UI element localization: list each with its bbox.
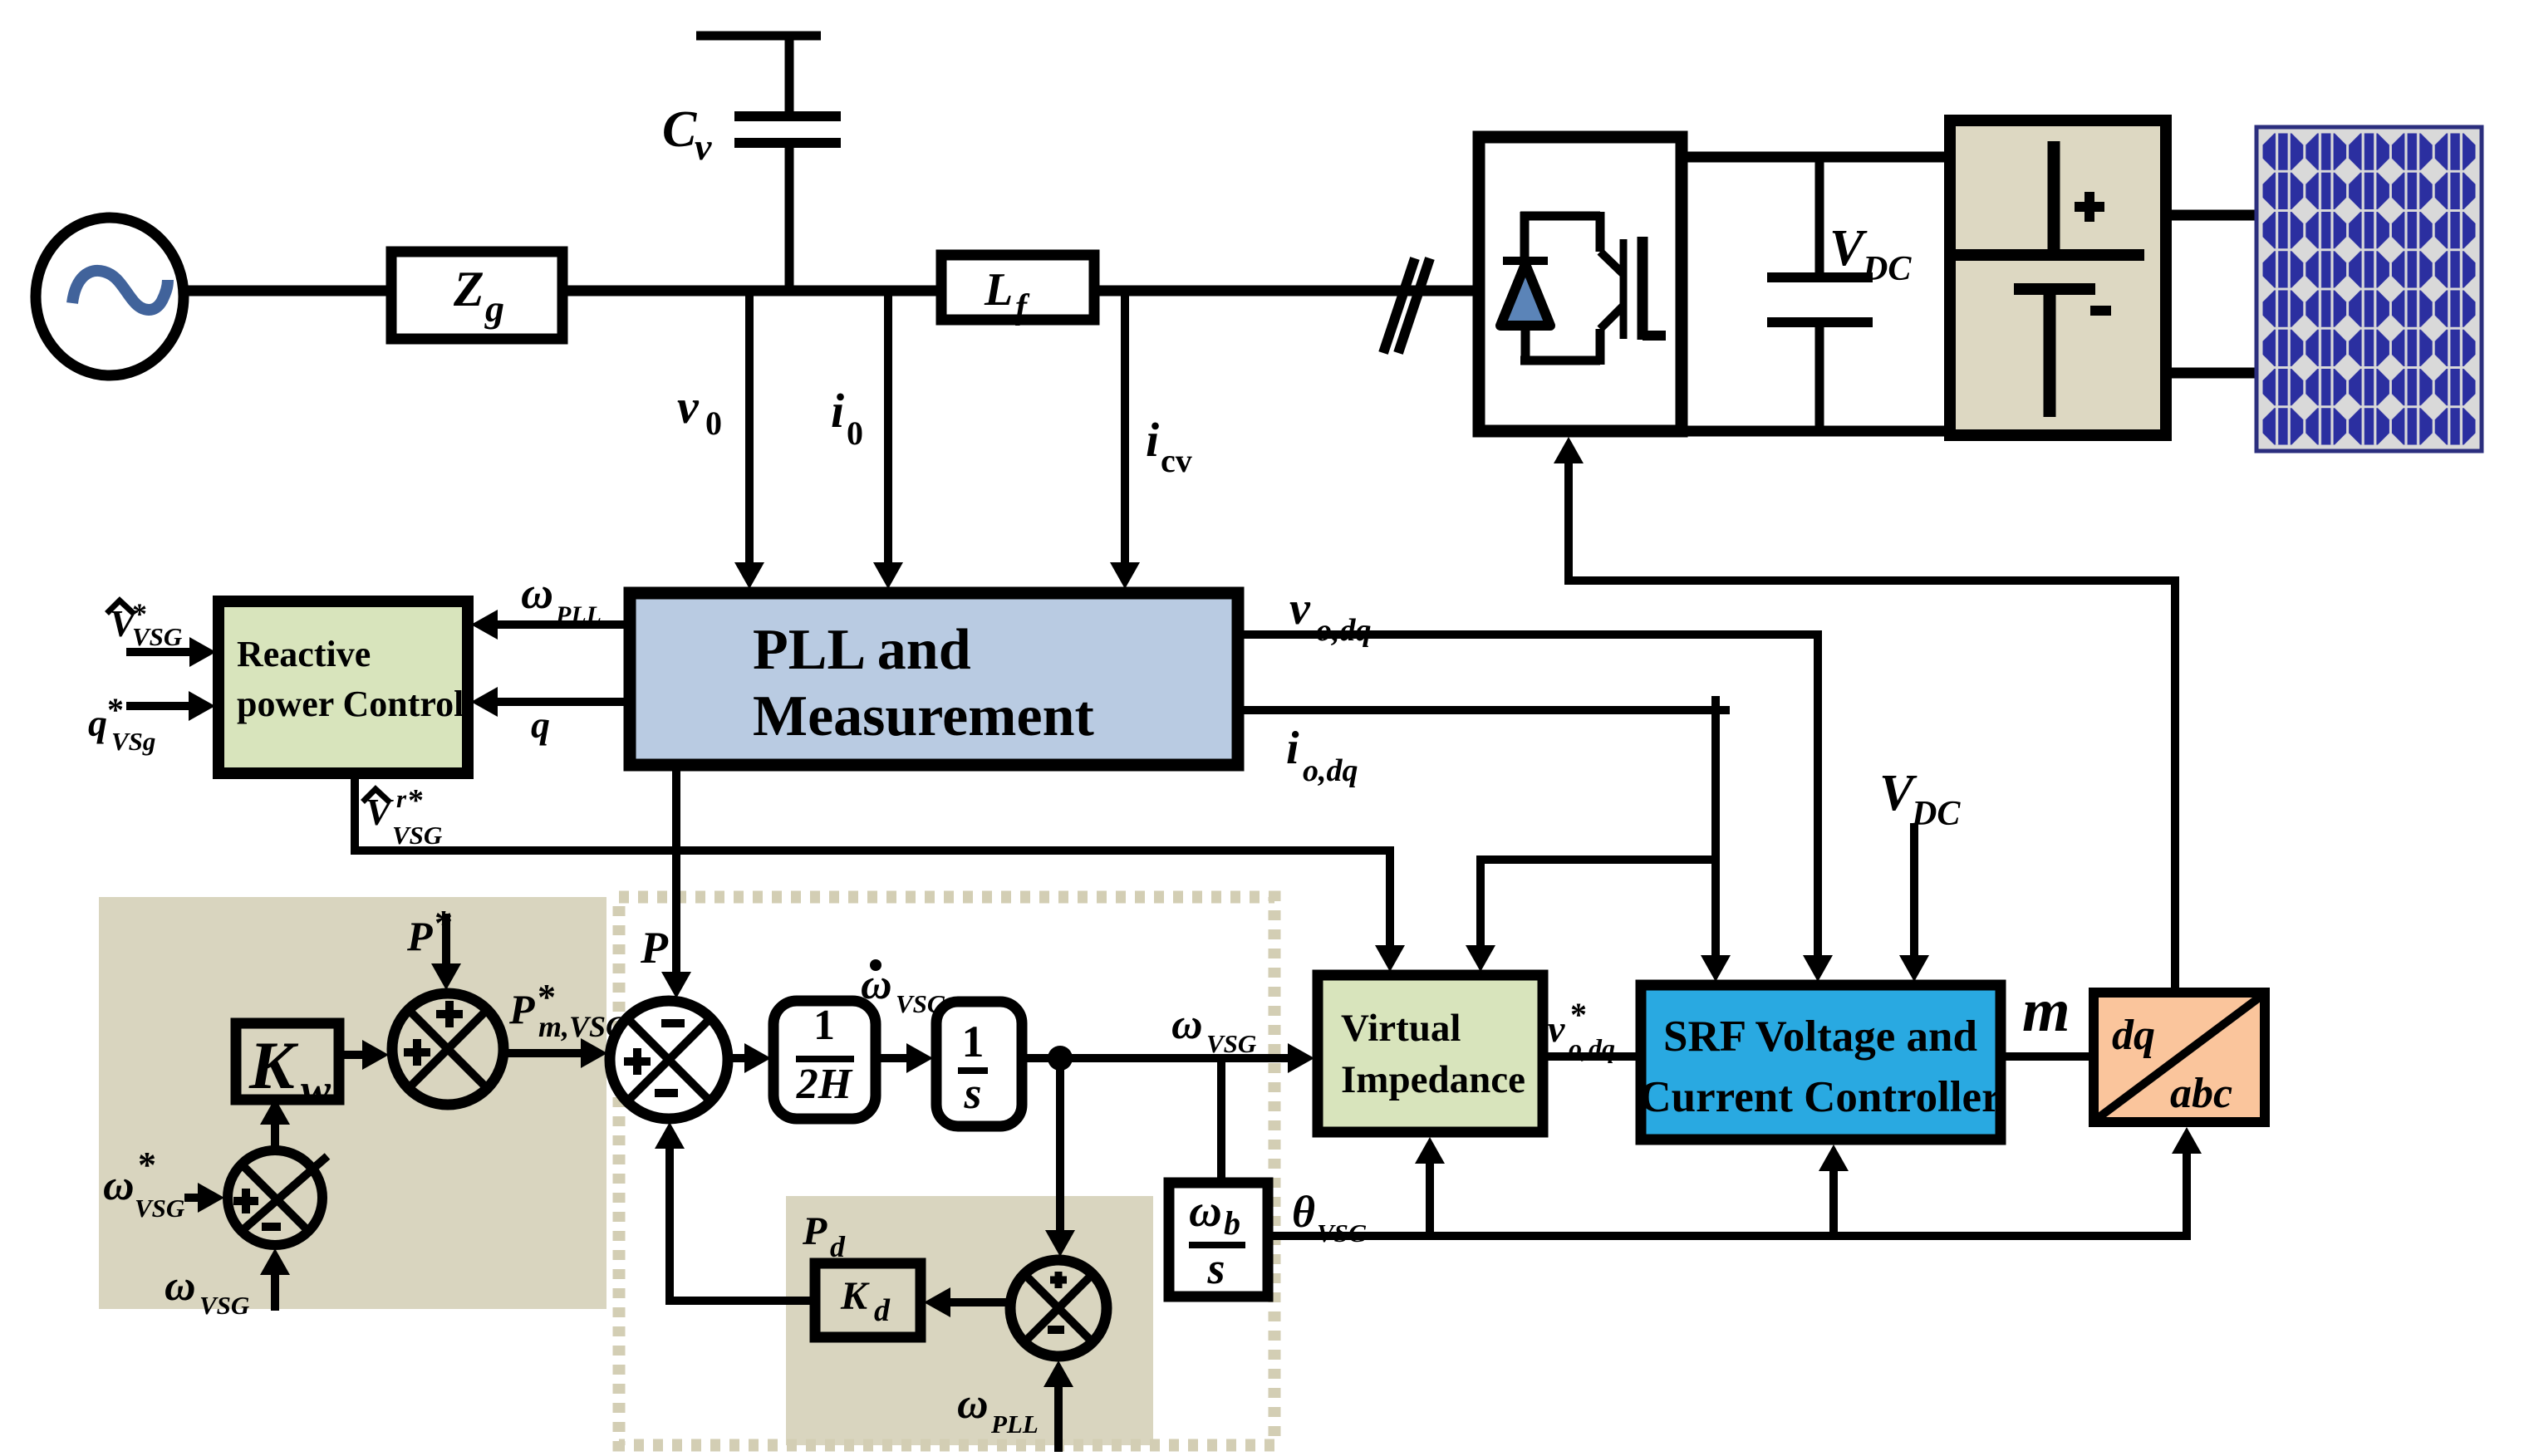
svg-text:v: v <box>1289 583 1311 635</box>
wire P measurement <box>672 765 680 973</box>
label i0 <box>831 384 863 452</box>
svg-text:C: C <box>662 101 697 158</box>
svg-text:θ: θ <box>1292 1187 1315 1237</box>
svg-text:dq: dq <box>2112 1012 2155 1059</box>
svg-text:ω: ω <box>165 1262 196 1310</box>
svg-text:cv: cv <box>1161 442 1192 479</box>
IGBT switch Q1 <box>1600 237 1666 340</box>
svg-text:ω: ω <box>1189 1185 1222 1236</box>
label v*odq <box>1548 996 1615 1063</box>
svg-text:w: w <box>301 1065 331 1115</box>
minus sign bottom <box>1048 1326 1064 1334</box>
grid impedance Zg <box>391 252 562 339</box>
svg-text:P: P <box>406 913 433 959</box>
wire swing to 1/2H <box>728 1054 745 1062</box>
inverter internal loop wire <box>1520 212 1600 365</box>
wire source to Zg <box>182 286 391 297</box>
block 1/2H <box>773 1001 876 1119</box>
plus sign top <box>1050 1272 1067 1288</box>
label iodq <box>1286 723 1358 788</box>
svg-text:abc: abc <box>2170 1070 2232 1117</box>
khaki damping region <box>786 1196 1153 1445</box>
svg-text:0: 0 <box>847 414 863 452</box>
inverter U1 <box>1479 137 1682 431</box>
block Virtual Impedance <box>1318 975 1543 1132</box>
svg-text:i: i <box>1146 413 1159 467</box>
PV panel <box>2256 127 2482 451</box>
label VDC sense <box>1879 765 1961 833</box>
svg-text:d: d <box>874 1293 891 1328</box>
wire Kw to S1 <box>339 1051 363 1059</box>
svg-text:P: P <box>640 923 669 973</box>
wire omegaPLL into S3 <box>1054 1386 1063 1452</box>
wire Pm*VSG to swing summer <box>503 1049 582 1057</box>
plus sign top <box>436 1001 463 1027</box>
svg-text:r: r <box>396 784 407 813</box>
wire thetaVSG <box>1268 1153 2187 1236</box>
svg-text:0: 0 <box>705 404 722 442</box>
wire inverter to battery top <box>1682 152 1954 163</box>
svg-text:VSG: VSG <box>132 622 183 651</box>
svg-text:v: v <box>695 125 712 168</box>
dashed VSG swing region <box>619 897 1274 1445</box>
svg-text:Virtual: Virtual <box>1341 1007 1461 1050</box>
plus sign left <box>404 1039 430 1066</box>
wire V*VSG input <box>126 648 190 656</box>
svg-text:VSG: VSG <box>392 821 443 850</box>
summer swing <box>610 1001 728 1119</box>
wire S3 to Kd <box>950 1298 1009 1306</box>
wire 1/s to virtual impedance <box>1022 1054 1289 1062</box>
block PLL and Measurement <box>630 593 1238 765</box>
wire omegaVSG into S2 <box>271 1274 279 1311</box>
block Kd <box>815 1263 921 1337</box>
inductor Lf <box>941 255 1094 326</box>
block Reactive power Control <box>219 601 468 773</box>
block omega_b/s <box>1169 1183 1268 1297</box>
svg-text:SRF Voltage and: SRF Voltage and <box>1663 1012 1977 1061</box>
block 1/s <box>936 1002 1022 1126</box>
svg-text:VSG: VSG <box>135 1194 185 1223</box>
wire main bus Zg to Lf <box>562 286 941 297</box>
line break symbol <box>1383 258 1430 353</box>
wire theta branch to SRF controller <box>1829 1170 1838 1236</box>
svg-text:power Control: power Control <box>237 684 464 724</box>
plus sign left <box>233 1189 258 1213</box>
summer S1 <box>392 993 503 1105</box>
battery energy storage <box>1950 120 2166 435</box>
block Kw <box>236 1023 339 1115</box>
battery plus electrode <box>2048 141 2060 255</box>
svg-text:*: * <box>138 1145 156 1185</box>
summer S3 <box>1010 1260 1107 1356</box>
svg-text:VSG: VSG <box>1206 1029 1257 1058</box>
svg-text:2H: 2H <box>796 1061 853 1108</box>
svg-text:P: P <box>508 986 535 1032</box>
label omega*VSG <box>103 1145 185 1223</box>
label thetaVSG <box>1292 1187 1368 1248</box>
wire 1/2H to 1/s <box>876 1054 907 1062</box>
wire q to reactive control <box>497 698 630 706</box>
svg-text:ω: ω <box>1171 1001 1203 1048</box>
svg-text:ω: ω <box>103 1162 135 1209</box>
svg-text:VSg: VSg <box>111 727 155 756</box>
block SRF Voltage and Current Controller <box>1639 985 2001 1140</box>
plus sign <box>2075 192 2104 222</box>
svg-text:PLL: PLL <box>990 1409 1039 1439</box>
svg-text:d: d <box>830 1230 846 1263</box>
svg-text:Reactive: Reactive <box>237 634 371 674</box>
wire iodq measurement <box>1238 710 1716 956</box>
wire v0 sense <box>745 291 754 563</box>
svg-text:*: * <box>408 783 424 818</box>
plus sign left <box>624 1048 651 1075</box>
wire battery to PV top <box>2166 210 2258 221</box>
svg-text:Impedance: Impedance <box>1341 1058 1525 1101</box>
svg-text:Current Controller: Current Controller <box>1639 1073 2001 1121</box>
svg-text:Z: Z <box>453 262 484 316</box>
label omega-dot VSG <box>861 959 946 1018</box>
capacitor VDC <box>1767 157 1873 431</box>
label Pm*VSG <box>508 977 627 1043</box>
svg-text:m: m <box>2022 977 2070 1045</box>
wire theta branch to virtual impedance <box>1426 1163 1434 1236</box>
wire omega*VSG input <box>184 1194 199 1202</box>
label Cv <box>662 101 712 168</box>
label v0 <box>677 380 722 442</box>
svg-text:s: s <box>963 1068 981 1118</box>
svg-text:1: 1 <box>813 1002 835 1049</box>
junction dot <box>1048 1046 1073 1071</box>
svg-text:*: * <box>1570 996 1587 1033</box>
wire iodq branch to virtual impedance <box>1481 860 1716 946</box>
svg-text:PLL: PLL <box>555 601 602 629</box>
minus sign bottom <box>655 1089 678 1097</box>
summer S2 <box>228 1150 327 1245</box>
wire battery to PV bottom <box>2166 368 2258 379</box>
svg-text:ω: ω <box>521 568 553 618</box>
wire vodq measurement <box>1238 635 1818 956</box>
wire i0 sense <box>884 291 892 563</box>
svg-text:Measurement: Measurement <box>753 684 1094 748</box>
svg-text:1: 1 <box>962 1017 985 1066</box>
label Vr*VSG <box>365 783 443 850</box>
wire Lf to inverter <box>1094 286 1479 297</box>
capacitor Cv <box>696 36 841 291</box>
svg-text:q: q <box>531 703 550 746</box>
AC grid source <box>36 218 184 375</box>
wire P* input <box>442 914 450 964</box>
svg-text:*: * <box>435 903 453 944</box>
label omegaPLL bottom <box>957 1380 1039 1439</box>
svg-text:o,dq: o,dq <box>1316 613 1372 648</box>
wire inverter to battery bottom <box>1682 426 1954 437</box>
svg-text:K: K <box>248 1027 299 1103</box>
svg-text:i: i <box>831 384 844 438</box>
wire VDC sense <box>1910 823 1918 956</box>
wire v*odq <box>1543 1052 1641 1061</box>
svg-text:*: * <box>107 691 124 728</box>
junction overshoot at iodq corner <box>1711 696 1730 714</box>
label Pd <box>802 1209 846 1263</box>
wire icv sense <box>1121 291 1129 563</box>
battery mid bar <box>1955 249 2144 261</box>
battery minus electrode <box>2014 283 2095 295</box>
freewheeling diode D1 <box>1500 261 1550 326</box>
minus sign <box>2090 306 2111 316</box>
svg-text:DC: DC <box>1911 795 1961 833</box>
svg-text:g: g <box>484 287 504 330</box>
svg-text:VSG: VSG <box>199 1291 250 1320</box>
wire S2 to Kw <box>271 1124 279 1150</box>
wire m output <box>2001 1052 2092 1061</box>
svg-text:DC: DC <box>1862 250 1912 288</box>
label P* <box>406 903 453 959</box>
svg-text:o,dq: o,dq <box>1569 1033 1615 1063</box>
svg-text:VSG: VSG <box>1317 1218 1368 1248</box>
label omegaVSG output <box>1171 1001 1257 1058</box>
label q*VSg reference <box>88 691 155 756</box>
minus sign bottom <box>262 1223 281 1231</box>
svg-text:L: L <box>984 264 1013 316</box>
svg-text:P: P <box>802 1209 827 1253</box>
wire Vr*VSG output <box>355 773 1390 946</box>
svg-text:K: K <box>840 1274 870 1318</box>
minus sign top <box>661 1019 685 1027</box>
svg-text:ω: ω <box>957 1380 989 1428</box>
label vodq <box>1289 583 1372 648</box>
svg-text:i: i <box>1286 723 1299 774</box>
svg-text:b: b <box>1224 1204 1240 1242</box>
svg-text:v: v <box>1548 1007 1565 1050</box>
svg-text:PLL and: PLL and <box>753 618 971 682</box>
label VDC <box>1829 220 1912 288</box>
label omega PLL <box>521 568 602 629</box>
wire omegaVSG to omega_b/s <box>1217 1058 1225 1183</box>
wire Kd to swing summer <box>670 1148 815 1301</box>
khaki governor region <box>99 897 606 1309</box>
label icv <box>1146 413 1192 479</box>
wire omega PLL to reactive control <box>497 620 630 629</box>
svg-text:q: q <box>88 702 107 744</box>
svg-text:v: v <box>677 380 700 434</box>
svg-text:s: s <box>1206 1243 1225 1293</box>
block dq/abc transform <box>2094 993 2265 1122</box>
label V*VSG reference <box>109 597 183 651</box>
label omegaVSG feedback <box>165 1262 250 1320</box>
wire m feedback to inverter <box>1569 463 2175 993</box>
wire q*VSg input <box>126 702 189 710</box>
svg-text:o,dq: o,dq <box>1303 753 1358 788</box>
wire omegaVSG down to S3 <box>1056 1058 1064 1231</box>
